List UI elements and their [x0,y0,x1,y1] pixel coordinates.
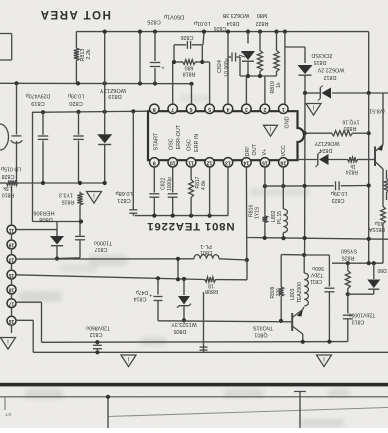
wire stub x203 [200,292,208,352]
resistor R824 [346,157,359,175]
wire box riser [203,32,204,45]
wire zener rail [305,92,388,94]
label R817 [195,176,207,190]
node I4 [182,318,186,322]
label C812 [86,325,110,337]
wire pin6 column [191,84,193,104]
node A2 [76,81,80,85]
node B2 [76,110,80,114]
node A3 [103,81,107,85]
label D812 [317,67,344,81]
wire R815-C817 [57,207,80,259]
node I6 [176,257,180,261]
node R1a [246,74,250,78]
node T1 [138,30,142,34]
node T9 [283,30,287,34]
wire stub x5 [4,397,6,410]
label V-8 top right [369,108,385,114]
label R819 [270,81,282,94]
label C823 [331,190,348,203]
label D824 [314,140,340,153]
label R808 [205,282,218,294]
wire D819 column [104,32,106,183]
label R815A [368,220,385,232]
capacitor C821 [129,210,137,213]
node A1 [14,81,18,85]
node T4 [202,30,206,34]
resistor R815 [59,192,83,207]
IC name label N801 TEA2261 [146,220,234,232]
node E3 [303,184,307,188]
transistor V852 [359,93,383,205]
pin label START [154,132,160,150]
label D805 [171,321,197,334]
label R825 [341,248,357,261]
wire rail76 [240,75,277,77]
resistor R816 [263,186,268,238]
wire faint lower [108,408,388,417]
wire pin7 column [172,62,174,104]
wire col x304 [304,93,306,255]
wire T-pin18 [16,320,33,352]
node G4 [208,214,212,218]
inductor L801 [194,255,219,259]
wire D rail [16,258,194,260]
node M3 [346,292,350,296]
op-amp U1 body N801 [148,111,304,160]
warning triangle W1 [87,192,102,204]
wire pin12 col [209,167,211,216]
resistor R821 edge fragment [384,170,388,200]
label L802 [271,210,283,224]
label L803 [290,282,303,303]
node K1 [95,340,99,344]
node F1 [263,236,267,240]
label C813 [348,312,375,325]
wire pin9 col [153,167,155,216]
resistor R815A [381,205,386,263]
capacitor C824 [228,53,240,77]
wire C819 column [42,112,44,183]
node T8 [274,30,278,34]
resistor R819 [274,32,279,76]
wire bottom col x300 [294,392,306,429]
capacitor C822b [168,194,178,197]
wire C825 column [154,32,156,84]
node G1 [152,214,156,218]
label C828 [1,166,22,180]
node G3 [189,214,193,218]
IC top pins 8-1 [150,104,288,113]
resistor R809 [279,255,304,321]
node B1 [41,110,45,114]
label D808 [33,210,54,223]
label D815 [311,52,332,65]
wire row263 [332,262,383,264]
node Z2 [367,91,371,95]
wire F rail [16,275,204,280]
node E1 [263,184,267,188]
wire C821 column [132,111,134,215]
capacitor C817 [75,236,85,239]
label R809 [270,286,282,298]
label C811 [310,265,324,284]
diode D814 [239,32,255,76]
wire bottom rail397 [0,396,388,398]
label R816 [249,204,255,217]
node E2 [281,184,285,188]
label Q801 [253,325,273,338]
wire C828 column [16,83,18,183]
connector J1 fragment [0,34,12,61]
node I3 [279,319,283,323]
transformer T801 winding [0,124,9,150]
node I5 [176,277,180,281]
node K3 [327,340,331,344]
label L0.01 [194,20,227,31]
wire D rail2 [219,259,247,260]
ground warning triangle W4 [1,338,16,350]
wire R813 column [75,32,77,84]
diode D806 [348,263,381,294]
label C814 [134,289,149,301]
node B3 [103,110,107,114]
wire T-pin11 [16,229,57,231]
wire pin15 column [264,167,266,186]
wire pin4 column [227,32,229,105]
label C822 [161,177,174,191]
IC bottom pins 9-16 [150,158,288,167]
zener D812 [318,86,331,101]
label C824 [217,58,230,76]
transistor Q801 [292,307,304,342]
resistor R810 [2,180,19,197]
wire bottom col x108 [106,395,110,428]
warning triangle W3 [306,104,321,116]
node T2 [153,30,157,34]
node L1 [95,350,99,354]
node RC2 [367,131,371,135]
node T6 [246,30,250,34]
pin label VCC [281,145,287,156]
label D819 [100,87,126,99]
node M0 [346,261,350,265]
wire D815 branch [285,47,305,63]
resistor R818 [181,60,197,77]
node D2 [55,257,59,261]
node T3 [103,30,107,34]
label R822 [256,12,269,26]
resistor R822 [257,32,262,76]
label C819 [26,93,51,106]
wire D-F link [177,259,179,280]
zener D805 [177,279,191,320]
capacitor C823 [336,181,340,190]
node M2 [372,261,376,265]
label R820 [342,119,359,131]
pin label OSC ERR-OUT [169,124,183,150]
wire row238 [246,238,388,240]
resistor R817 [189,167,194,216]
node C3 [103,181,107,185]
transformer secondary pins [7,186,16,333]
label R816v [255,206,261,219]
wire pin3 column [245,76,247,104]
wire pin1 column [284,32,286,105]
node R818R [200,60,204,64]
wire C rail [0,182,105,184]
wire pin14 column [245,167,247,260]
node R1b [258,74,262,78]
node I2 [182,277,186,281]
wire bottom rail352 [33,351,388,353]
wire x140 link [139,32,141,84]
wire pin10 col [172,167,174,216]
label C826 top [181,34,194,40]
wire B left drop [33,112,82,221]
node M1 [367,261,371,265]
diode D815 [298,65,313,93]
wire base rail [158,321,292,322]
pin label DRI OUT [245,143,258,156]
capacitor C819 [38,136,49,139]
diode D819 [97,134,112,144]
node F3 [303,236,307,240]
warning triangle W5 [121,355,136,367]
capacitor C822a [149,194,159,197]
wire B to pin8 [32,111,150,112]
wire T-pin17 [16,302,42,342]
node Z1 [303,91,307,95]
node T5 [226,30,230,34]
resistor R825 [345,263,350,294]
zener D824 [298,152,347,167]
node F2 [281,236,285,240]
node H1 [245,258,249,262]
warning triangle W6 [317,355,332,367]
node F4 [367,237,371,241]
pin label V+ [262,149,268,156]
capacitor C814 [149,278,163,321]
label C820 [68,93,84,106]
node D1 [79,219,83,223]
node R818L [172,60,176,64]
node RC1 [303,131,307,135]
node B4 [131,109,135,113]
node G2 [171,214,175,218]
node C1 [41,181,45,185]
capacitor C828 [11,136,22,143]
wire E rail [42,341,348,344]
wire C820 column [78,112,80,183]
label C825 [147,14,184,25]
wire pin16 column [282,167,284,186]
hot area label [39,8,111,20]
label C817 [94,240,112,253]
capacitor C812 [93,342,102,352]
label C821 [115,190,133,203]
label ET [5,412,11,417]
capacitor C813 [343,294,353,341]
capacitor C820 [73,136,84,139]
node A4 [138,81,142,85]
label D814 [222,12,249,26]
resistor R820 [305,131,369,136]
node I1 [156,276,160,280]
node C2 [78,181,82,185]
node A6 [189,82,193,86]
label D806 [377,267,386,273]
capacitor C811 [304,255,334,342]
wire VCC-top rail [76,32,368,93]
wire rail216 [135,167,229,216]
pin label OSC ERR IN [187,134,201,152]
warning triangle W2 inside IC [264,125,278,136]
node E4 [367,183,371,187]
wire right column x368 [368,93,370,263]
resistor R808 [203,260,247,282]
pin label GND [285,116,291,128]
wire pin5 column [202,62,209,104]
inductor L803 [304,255,308,306]
node A5 [153,81,157,85]
resistor R813 [74,47,92,63]
label L801 [200,243,212,255]
wire row186 [265,185,369,188]
capacitor C826 box [174,41,202,62]
power bus bar [0,383,388,387]
node T7 [258,30,262,34]
diode D808 [50,222,64,259]
inductor L802 [283,186,287,238]
wire main rail A [0,82,192,84]
capacitor C825 [150,63,166,73]
node K2 [301,340,305,344]
node J1 [302,253,306,257]
wire pin2 column [264,76,266,104]
